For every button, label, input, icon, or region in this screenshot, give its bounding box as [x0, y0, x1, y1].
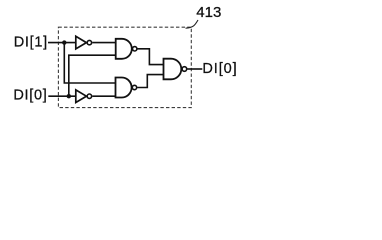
svg-text:DI[0]: DI[0]	[202, 61, 237, 77]
svg-text:DI[1]: DI[1]	[14, 34, 48, 50]
svg-text:DI[0]: DI[0]	[13, 88, 47, 104]
svg-text:413: 413	[196, 4, 221, 21]
